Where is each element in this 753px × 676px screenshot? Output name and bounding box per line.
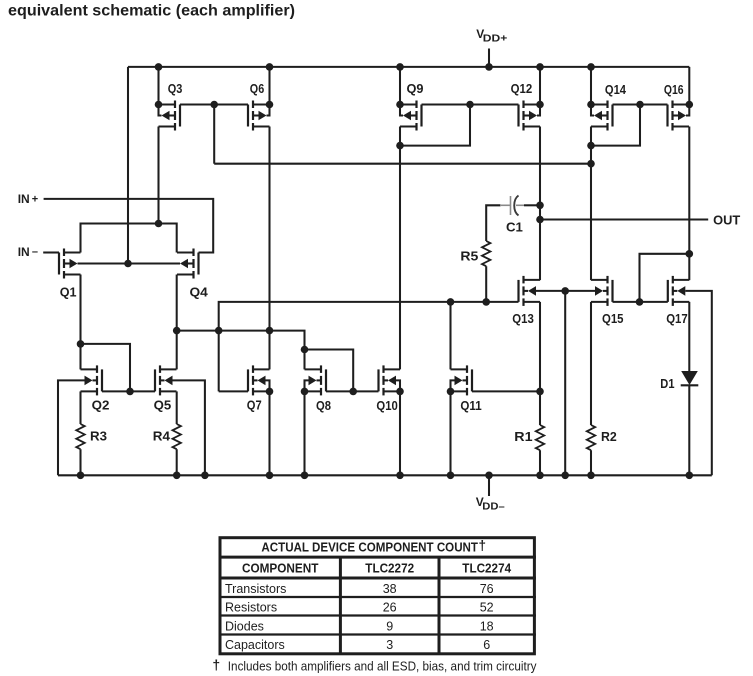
wire Q6 gate lead: [214, 103, 248, 105]
wire second-stage mirror line (Q4/Q5 drains to Q8 drain): [177, 331, 305, 370]
wire Q13/Q15 shared body line: [536, 290, 595, 292]
table column divider 2: [438, 557, 441, 654]
wire gate node up to Q16 source / Q17 drain: [640, 254, 690, 302]
junction Q10 source/body: [396, 388, 404, 396]
transistor Q4: [177, 249, 199, 279]
svg-text:Q10: Q10: [376, 398, 397, 413]
table row separator 1: [219, 596, 536, 598]
wire Q12 source down to Q13 drain: [539, 127, 541, 281]
junction Q12 drain/body: [536, 101, 544, 109]
junction R3 at rail: [77, 472, 85, 480]
junction Q14/Q16 gate node: [636, 101, 644, 109]
wire OUT line: [540, 218, 708, 220]
wire Q6 source down to mirror line: [268, 127, 270, 331]
wire Q2 gate lead: [102, 390, 130, 392]
svg-text:Q14: Q14: [605, 82, 627, 97]
svg-text:6: 6: [483, 638, 490, 652]
wire R5 bottom to gate line: [485, 266, 487, 302]
wire body node down to VDD- rail: [564, 291, 566, 475]
resistor R2: [587, 425, 595, 450]
wire Q14 source down through bias line to Q15 drain: [590, 127, 592, 281]
wire R1 to VDD- rail: [539, 450, 541, 475]
junction Q9 drain at rail: [396, 63, 404, 71]
junction VDD+ stub on rail: [485, 63, 493, 71]
wire Q9 body tie to drain: [400, 105, 403, 116]
junction R1 at rail: [536, 472, 544, 480]
wire Q1/Q4 common body line to VDD+: [78, 262, 181, 264]
resistor R4: [173, 424, 181, 449]
wire Q3 source down to input tail line: [157, 127, 159, 224]
junction R5 on gate line: [482, 298, 490, 306]
transistor Q5: [155, 365, 177, 395]
svg-text:76: 76: [480, 582, 494, 596]
wire Q12 body tie to drain: [537, 105, 540, 116]
wire Q14 diode connection to gate node: [591, 105, 640, 146]
wire Q14 gate lead: [613, 103, 641, 105]
transistor Q17: [668, 276, 690, 306]
transistor Q8: [305, 365, 327, 395]
wire VDD+ terminal stub: [488, 49, 490, 67]
transistor Q2: [81, 365, 103, 395]
svg-text:Q2: Q2: [92, 398, 110, 413]
wire VDD+ rail left drop to input-pair body node: [127, 67, 129, 264]
wire Q8 drain to Q8/Q10 gate node: [305, 350, 354, 392]
wire Q5 source to R4: [176, 391, 178, 424]
junction Q11 at rail: [447, 472, 455, 480]
junction C1 at Q12/Q13 column: [536, 202, 544, 210]
wire Q9 drain to rail: [399, 67, 401, 105]
svg-text:Q1: Q1: [60, 285, 77, 300]
junction input pair body node: [124, 260, 132, 268]
transistor Q15: [591, 276, 613, 306]
svg-text:Q12: Q12: [511, 81, 533, 96]
transistor Q10: [379, 365, 401, 395]
wire Q12 drain to rail: [539, 67, 541, 105]
svg-text:Q8: Q8: [316, 398, 331, 413]
wire tail line from Q3 source to Q1/Q4 sources: [81, 224, 177, 253]
wire Q17 source down to D1: [688, 302, 690, 372]
svg-text:Q3: Q3: [168, 81, 183, 96]
table column divider 1: [339, 557, 342, 654]
junction Q14 source / diode link: [587, 142, 595, 150]
transistor Q13: [519, 276, 541, 306]
junction Q10 at rail: [396, 472, 404, 480]
wire D1 to VDD- rail: [688, 385, 690, 475]
resistor R3: [76, 424, 84, 449]
svg-text:TLC2274: TLC2274: [462, 562, 511, 576]
component count table frame: [220, 538, 534, 654]
transistor Q1: [59, 249, 81, 279]
wire Q12 gate lead: [470, 103, 519, 105]
svg-text:Q7: Q7: [247, 398, 262, 413]
wire Q17 drain up to node: [688, 254, 690, 280]
junction bias line end at Q14 column: [587, 160, 595, 168]
wire Q4 drain down to second mirror leg: [176, 275, 178, 331]
svg-text:Diodes: Diodes: [225, 619, 264, 633]
junction Q6 drain at rail: [266, 63, 274, 71]
transistor Q7: [248, 365, 270, 395]
diode D1: [681, 371, 699, 385]
wire Q16 gate lead: [640, 103, 668, 105]
junction Q13/Q15 body at rail: [561, 472, 569, 480]
junction VDD- stub on rail: [485, 472, 493, 480]
wire Q9 diode connection to gate node: [400, 105, 470, 146]
svg-text:OUT: OUT: [713, 213, 740, 228]
svg-text:R3: R3: [90, 429, 107, 444]
wire Q7 body/source to VDD- rail: [266, 380, 270, 391]
svg-text:Resistors: Resistors: [225, 601, 277, 615]
junction Q14 drain at rail: [587, 63, 595, 71]
svg-text:–: –: [32, 246, 38, 258]
transistor Q6: [248, 101, 270, 131]
wire Q6 body tie to drain: [267, 105, 270, 116]
wire mirror gate link from Q1 drain: [81, 344, 131, 392]
svg-text:Includes both amplifiers and a: Includes both amplifiers and all ESD, bi…: [228, 659, 537, 673]
wire Q11 drain up to Q13 gate line: [449, 302, 451, 370]
svg-text:Capacitors: Capacitors: [225, 638, 285, 652]
svg-text:Q9: Q9: [407, 81, 424, 96]
transistor Q3: [159, 101, 181, 131]
wire Q5 body to VDD- rail: [173, 380, 205, 475]
junction Q2/Q5 gate node: [126, 388, 134, 396]
junction Q11 drain on gate line: [447, 298, 455, 306]
junction Q3 source on tail line: [155, 220, 163, 228]
junction Q8 source/body: [301, 388, 309, 396]
wire Q14 body tie to drain: [591, 105, 594, 116]
svg-text:R5: R5: [460, 249, 478, 264]
svg-text:C1: C1: [506, 220, 523, 235]
wire Q2 drain up to Q1 drain: [79, 344, 81, 370]
junction Q8 at rail: [301, 472, 309, 480]
junction Q6 drain/body: [266, 101, 274, 109]
junction Q4/Q5 drain node: [173, 327, 181, 335]
junction Q3 drain/body: [155, 101, 163, 109]
svg-text:26: 26: [383, 601, 397, 615]
wire Q1 drain down to mirror: [79, 275, 81, 344]
table line under title row: [219, 556, 536, 559]
wire Q8/Q10 gate line: [326, 390, 379, 392]
junction Q3 drain at rail: [155, 63, 163, 71]
svg-text:IN: IN: [18, 245, 30, 259]
junction Q7 source/body: [266, 388, 274, 396]
svg-text:Q15: Q15: [602, 311, 624, 326]
wire Q10 body/source to VDD- rail: [396, 380, 400, 391]
wire riser from mirror line down to Q7 gate and up to Q13 gate line: [219, 302, 519, 392]
wire R5 top / C1 left lead: [486, 205, 500, 241]
junction Q9 source / diode link: [396, 142, 404, 150]
junction Q16 drain/body: [686, 101, 694, 109]
table line under header row: [219, 577, 536, 580]
wire Q11 gate lead to R1 column: [472, 390, 540, 392]
capacitor C1: [500, 196, 540, 216]
wire Q3 gate lead: [180, 103, 214, 105]
junction Q15/Q17 gate node: [636, 298, 644, 306]
svg-text:R1: R1: [514, 429, 532, 444]
resistor R1: [536, 425, 544, 450]
wire R3 to VDD- rail: [79, 449, 81, 475]
wire Q5 gate lead: [130, 390, 155, 392]
wire Q9 source down through to Q10 drain: [399, 127, 401, 370]
junction R2 at rail: [587, 472, 595, 480]
wire Q15/Q17 gate line: [613, 301, 668, 303]
junction Q9/Q12 gate node: [466, 101, 474, 109]
wire Q3 body tie to drain: [159, 105, 162, 116]
wire Q6 drain to rail: [268, 67, 270, 105]
junction Q6 source / Q7 drain node: [266, 327, 274, 335]
wire Q16 body tie to drain: [686, 105, 689, 116]
wire Q5 drain up to Q4 drain: [176, 331, 178, 370]
svg-text:DD+: DD+: [483, 32, 508, 44]
wire VDD+ rail right drop to Q16 drain: [688, 67, 690, 105]
wire Q7 drain up: [268, 331, 270, 370]
junction R4 at rail: [173, 472, 181, 480]
junction Q9 drain/body: [396, 101, 404, 109]
wire Q17 body to VDD- rail: [685, 291, 712, 475]
resistor R5: [482, 241, 490, 266]
svg-text:equivalent schematic (each amp: equivalent schematic (each amplifier): [8, 2, 295, 19]
wire Q2 source to R3: [79, 391, 81, 424]
wire Q11 body/source to VDD- rail: [451, 380, 455, 391]
wire Q14 drain to rail: [590, 67, 592, 105]
junction Q5 body at rail: [201, 472, 209, 480]
svg-text:18: 18: [480, 619, 494, 633]
svg-text:†: †: [479, 538, 487, 553]
junction Q12 drain at rail: [536, 63, 544, 71]
junction D1 at rail: [686, 472, 694, 480]
svg-text:R4: R4: [153, 429, 171, 444]
VDD- rail wire: [58, 474, 712, 476]
transistor Q14: [591, 101, 613, 131]
table row separator 3: [219, 633, 536, 635]
svg-text:Q6: Q6: [250, 81, 264, 96]
VDD+ rail wire: [128, 66, 689, 68]
svg-text:Q13: Q13: [512, 311, 534, 326]
wire Q8 body/source to VDD- rail: [305, 380, 309, 391]
svg-text:38: 38: [383, 582, 397, 596]
svg-text:IN: IN: [18, 192, 30, 206]
junction Q13/Q15 body node: [561, 287, 569, 295]
svg-text:†: †: [212, 657, 220, 673]
transistor Q16: [668, 101, 690, 131]
svg-text:Transistors: Transistors: [225, 582, 286, 596]
wire Q3/Q6 gate node drop: [213, 105, 215, 164]
wire R2 to VDD- rail: [590, 450, 592, 475]
wire R4 to VDD- rail: [176, 449, 178, 475]
junction Q1/Q2 drain node: [77, 340, 85, 348]
svg-text:Q17: Q17: [666, 311, 688, 326]
junction Q14 drain/body: [587, 101, 595, 109]
transistor Q12: [519, 101, 541, 131]
svg-text:Q16: Q16: [664, 82, 684, 97]
wire Q2 body to VDD- rail: [58, 380, 85, 475]
wire Q7 gate lead: [219, 390, 248, 392]
wire Q3 drain to rail: [157, 67, 159, 105]
svg-text:Q5: Q5: [154, 398, 172, 413]
table row separator 2: [219, 614, 536, 616]
junction Q8 drain tap: [301, 346, 309, 354]
svg-text:COMPONENT: COMPONENT: [242, 562, 319, 576]
junction Q11 source/body: [447, 388, 455, 396]
junction Q3/Q6 gate node: [210, 101, 218, 109]
wire Q9 gate lead: [422, 103, 471, 105]
wire Q13 source down through R1: [539, 302, 541, 425]
junction Q11 gate at R1 column: [536, 388, 544, 396]
junction Q16 source / Q17 drain node: [686, 250, 694, 258]
svg-text:Q11: Q11: [460, 398, 481, 413]
wire bias line to Q14 column: [214, 163, 591, 165]
junction Q7 at rail: [266, 472, 274, 480]
svg-text:9: 9: [386, 619, 393, 633]
svg-text:+: +: [32, 194, 38, 206]
wire IN- to Q1 gate: [43, 251, 59, 253]
svg-text:D1: D1: [660, 376, 674, 391]
junction mirror line to gates riser: [215, 327, 223, 335]
wire IN+ to Q4 gate: [44, 199, 214, 253]
svg-text:DD–: DD–: [482, 500, 505, 512]
wire VDD- terminal stub: [488, 475, 490, 496]
svg-text:Q4: Q4: [190, 285, 209, 300]
svg-text:R2: R2: [601, 429, 617, 444]
transistor Q11: [451, 365, 473, 395]
svg-text:3: 3: [386, 638, 393, 652]
transistor Q9: [400, 101, 422, 131]
junction Q8/Q10 gate node: [349, 388, 357, 396]
wire Q16 source down to output-stage node: [688, 127, 690, 254]
svg-text:TLC2272: TLC2272: [365, 562, 414, 576]
svg-text:ACTUAL DEVICE COMPONENT COUNT: ACTUAL DEVICE COMPONENT COUNT: [261, 540, 478, 555]
svg-text:52: 52: [480, 601, 494, 615]
wire Q15 source down through R2: [590, 302, 592, 425]
junction OUT node: [536, 216, 544, 224]
